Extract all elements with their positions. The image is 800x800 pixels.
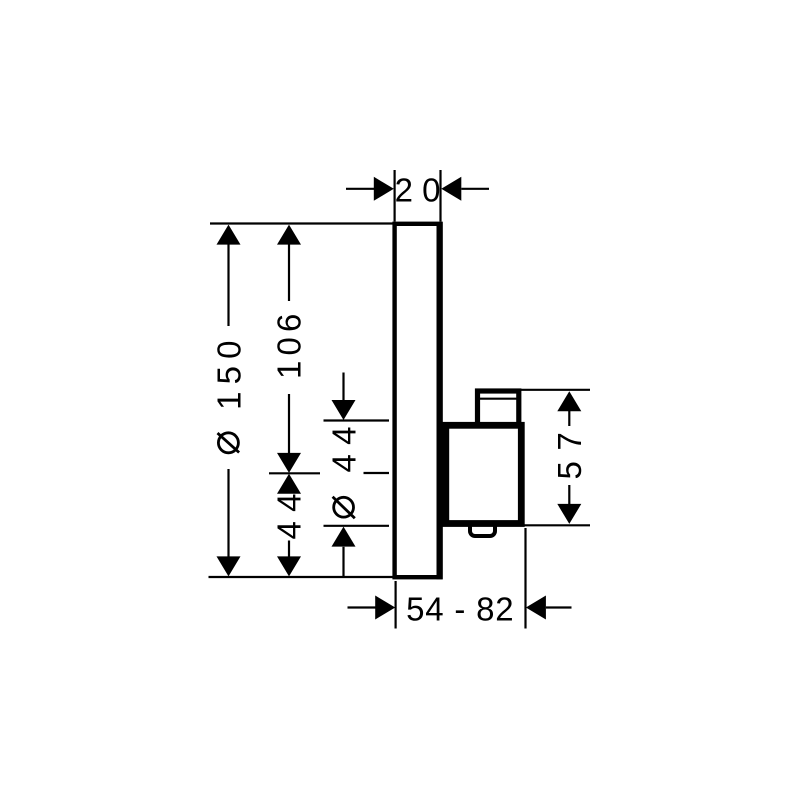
svg-text:2 0: 2 0 [395,172,441,209]
dim 54-82: right arrowhead [526,596,546,620]
wire: top extension line left of plate [210,222,394,224]
dim 44 left: top arrowhead [277,474,301,494]
dim 57: top arrowhead [557,391,581,411]
step inner line [479,398,517,400]
dim 20: right arrow tail [461,188,489,190]
svg-text:5 7: 5 7 [551,432,588,480]
svg-text:1 5 0: 1 5 0 [210,341,247,410]
dim 54-82: right extension line [524,528,526,629]
dim 20: left arrow tail [346,188,375,190]
dim 57: top extension line [521,389,590,391]
dim D44: bottom arrowhead [332,527,356,547]
dim 54-82: left extension line [395,581,397,629]
dim D44: line below bottom arrow [342,547,344,576]
svg-text:54 - 82: 54 - 82 [406,591,514,628]
dim 20: left arrowhead [374,177,394,201]
dim 57: line above bottom arrow [568,485,570,504]
dim D44: top arrowhead [332,400,356,420]
faceplate outline (side view) [395,224,441,577]
dim D150: bottom arrowhead [217,556,241,576]
dim D44: diameter symbol slash [333,497,355,519]
dim 106: bottom arrowhead [277,453,301,473]
dim 106: top arrowhead [277,225,301,245]
dim 20: right extension line [439,170,441,222]
dim 106: line above text [288,244,290,301]
dim D150: top arrowhead [217,225,241,245]
dim D44: diameter symbol circle [334,497,354,517]
dim 44 left: bottom arrowhead [277,556,301,576]
dim 57: bottom arrowhead [557,504,581,524]
tick at 106/44 boundary [269,472,320,474]
dim D44: middle tick segment [364,472,390,474]
valve bottom nub [470,521,495,536]
dim 57: bottom extension line [524,524,590,526]
dim 20: left extension line [394,170,396,222]
wire: bottom extension line left of plate [209,576,395,578]
dim D44: line above top arrow [342,373,344,401]
svg-text:4 4: 4 4 [270,494,307,540]
dim D150: diameter symbol slash [218,433,240,452]
dim 54-82: left arrow tail [348,606,376,608]
dim 54-82: right arrow tail [546,606,572,608]
dim 57: line below top arrow [568,411,570,426]
dim 44 left: line below text [288,541,290,558]
dim 20: right arrowhead [441,177,461,201]
svg-text:1 0 6: 1 0 6 [270,315,307,379]
faceplate right edge thick line [437,222,443,579]
valve body top step [478,391,519,426]
dim 54-82: left arrowhead [375,596,395,620]
dim 106: line below text [288,394,290,453]
valve main body [446,425,522,523]
dim D150: line below text [227,469,229,557]
dim D150: line above text [227,244,229,326]
dim D150: diameter symbol circle [218,433,238,453]
dim D44: bottom tick [324,525,390,527]
svg-text:4 4: 4 4 [325,427,362,473]
dim D44: top tick [324,419,390,421]
